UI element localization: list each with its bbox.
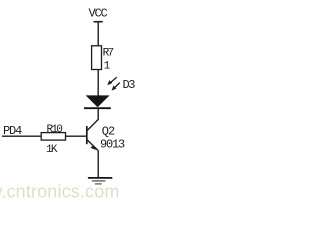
transistor Q2 collector	[87, 119, 98, 130]
svg-text:R10: R10	[47, 124, 63, 136]
wire VCC to R7	[97, 22, 99, 47]
transistor Q2 emitter	[87, 140, 98, 151]
transistor Q2 emitter arrowhead	[91, 145, 97, 150]
wire R10 to Q2 base	[66, 135, 87, 137]
svg-text:D3: D3	[123, 78, 136, 92]
svg-text:9013: 9013	[100, 138, 125, 152]
resistor R10	[41, 133, 65, 141]
wire PD4 to R10	[2, 135, 42, 137]
wire emitter to ground	[97, 151, 99, 178]
svg-text:R7: R7	[103, 47, 114, 59]
LED D3 cathode bar	[84, 107, 111, 109]
resistor R7	[92, 46, 102, 70]
svg-text:VCC: VCC	[89, 7, 108, 21]
LED arrow 1	[107, 77, 116, 85]
svg-text:Q2: Q2	[102, 125, 115, 139]
LED arrow 2	[112, 83, 120, 91]
ground bar 2	[92, 180, 106, 182]
ground bar 1	[88, 177, 112, 179]
wire LED to Q2 collector	[97, 108, 99, 120]
VCC power bar	[94, 21, 103, 23]
LED D3 triangle (anode)	[86, 95, 110, 107]
ground bar 3	[95, 183, 102, 185]
wire R7 to LED	[97, 70, 99, 97]
transistor Q2 base bar	[86, 126, 88, 144]
